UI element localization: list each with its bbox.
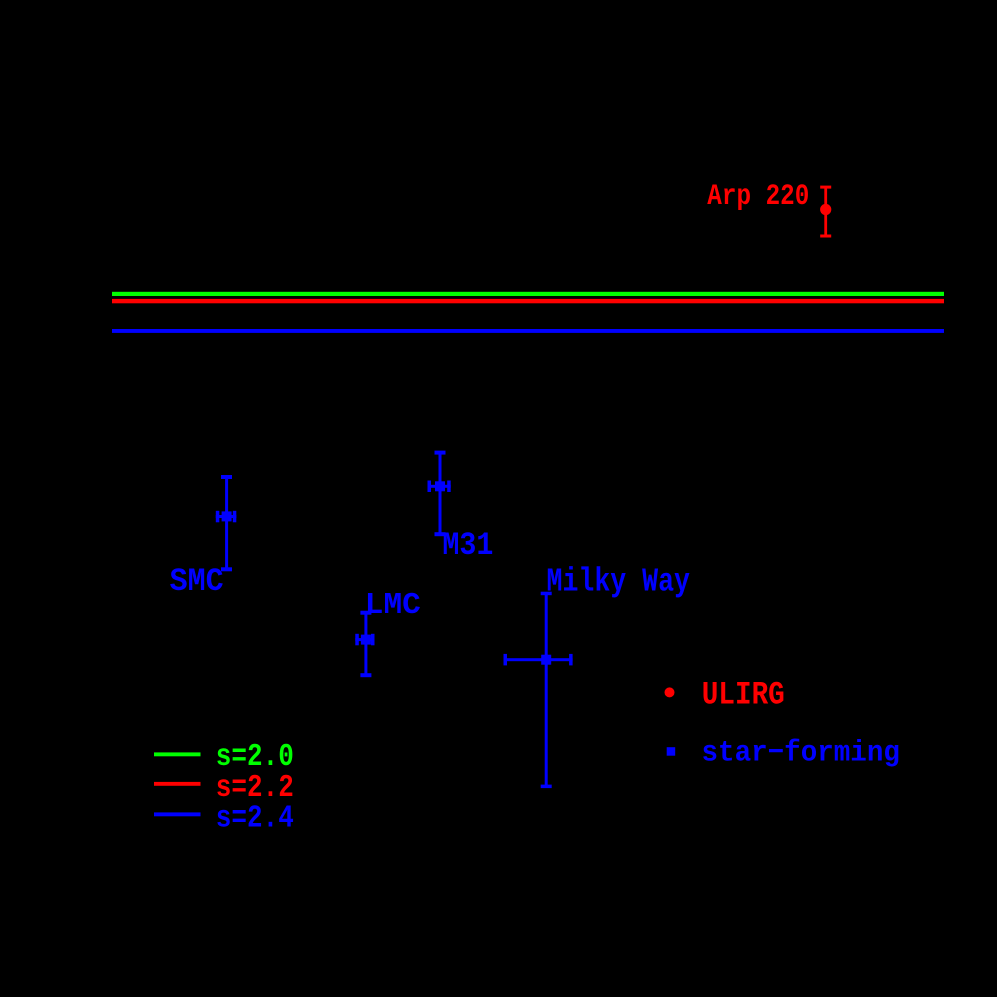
svg-text:M31: M31	[442, 527, 493, 564]
svg-text:Milky Way: Milky Way	[547, 562, 691, 600]
legend marker ULIRG (red circle)	[665, 687, 675, 697]
legend line s=2.4 (blue)	[154, 812, 201, 816]
svg-text:Arp 220: Arp 220	[707, 180, 809, 213]
SMC data point (square)	[222, 511, 232, 521]
model curve s=2.2 (red)	[112, 299, 944, 303]
Arp 220 data point (ULIRG circle)	[820, 204, 831, 215]
svg-text:s=2.2: s=2.2	[216, 771, 294, 806]
LMC data point (square)	[361, 635, 371, 645]
M31 horizontal error bar	[428, 481, 451, 493]
model curve s=2.0 (green)	[112, 292, 944, 296]
SMC horizontal error bar	[216, 511, 237, 523]
svg-text:s=2.4: s=2.4	[216, 802, 294, 837]
Arp 220 vertical error bar	[820, 186, 831, 238]
legend line s=2.0 (green)	[154, 752, 201, 756]
legend line s=2.2 (red)	[154, 782, 201, 786]
svg-text:ULIRG: ULIRG	[702, 676, 785, 713]
SMC vertical error bar	[221, 475, 232, 571]
M31 data point (square)	[435, 481, 445, 491]
model curve s=2.4 (blue)	[112, 329, 944, 333]
svg-text:star−forming: star−forming	[702, 737, 900, 771]
svg-text:LMC: LMC	[365, 589, 421, 623]
Milky Way data point (square)	[541, 655, 551, 665]
Milky Way horizontal error bar	[504, 654, 573, 666]
svg-text:SMC: SMC	[170, 563, 224, 600]
LMC horizontal error bar	[355, 634, 374, 646]
LMC vertical error bar	[360, 611, 371, 678]
Milky Way vertical error bar	[541, 592, 552, 788]
M31 vertical error bar	[435, 451, 446, 537]
legend marker star-forming (blue square)	[667, 747, 676, 756]
svg-text:s=2.0: s=2.0	[216, 740, 294, 775]
